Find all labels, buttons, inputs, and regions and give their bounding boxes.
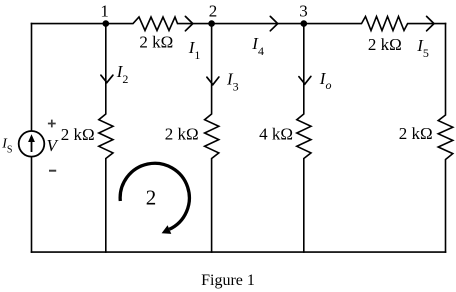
svg-text:I4: I4 [251, 34, 264, 58]
svg-text:Io: Io [319, 69, 332, 92]
svg-text:2 kΩ: 2 kΩ [368, 35, 402, 54]
svg-text:1: 1 [100, 1, 109, 20]
svg-text:2: 2 [209, 1, 218, 20]
svg-text:V: V [47, 136, 60, 155]
svg-text:I3: I3 [226, 70, 239, 94]
svg-text:4 kΩ: 4 kΩ [259, 125, 293, 144]
svg-text:2: 2 [146, 185, 157, 209]
svg-text:I5: I5 [416, 36, 429, 60]
svg-text:IS: IS [1, 136, 12, 155]
svg-text:2 kΩ: 2 kΩ [165, 125, 199, 144]
svg-text:2 kΩ: 2 kΩ [399, 124, 433, 143]
svg-text:3: 3 [299, 1, 308, 20]
svg-text:Figure 1: Figure 1 [201, 272, 255, 289]
svg-text:I2: I2 [116, 62, 129, 86]
svg-text:I1: I1 [188, 38, 201, 62]
svg-text:2 kΩ: 2 kΩ [61, 125, 95, 144]
svg-text:2 kΩ: 2 kΩ [139, 32, 173, 51]
